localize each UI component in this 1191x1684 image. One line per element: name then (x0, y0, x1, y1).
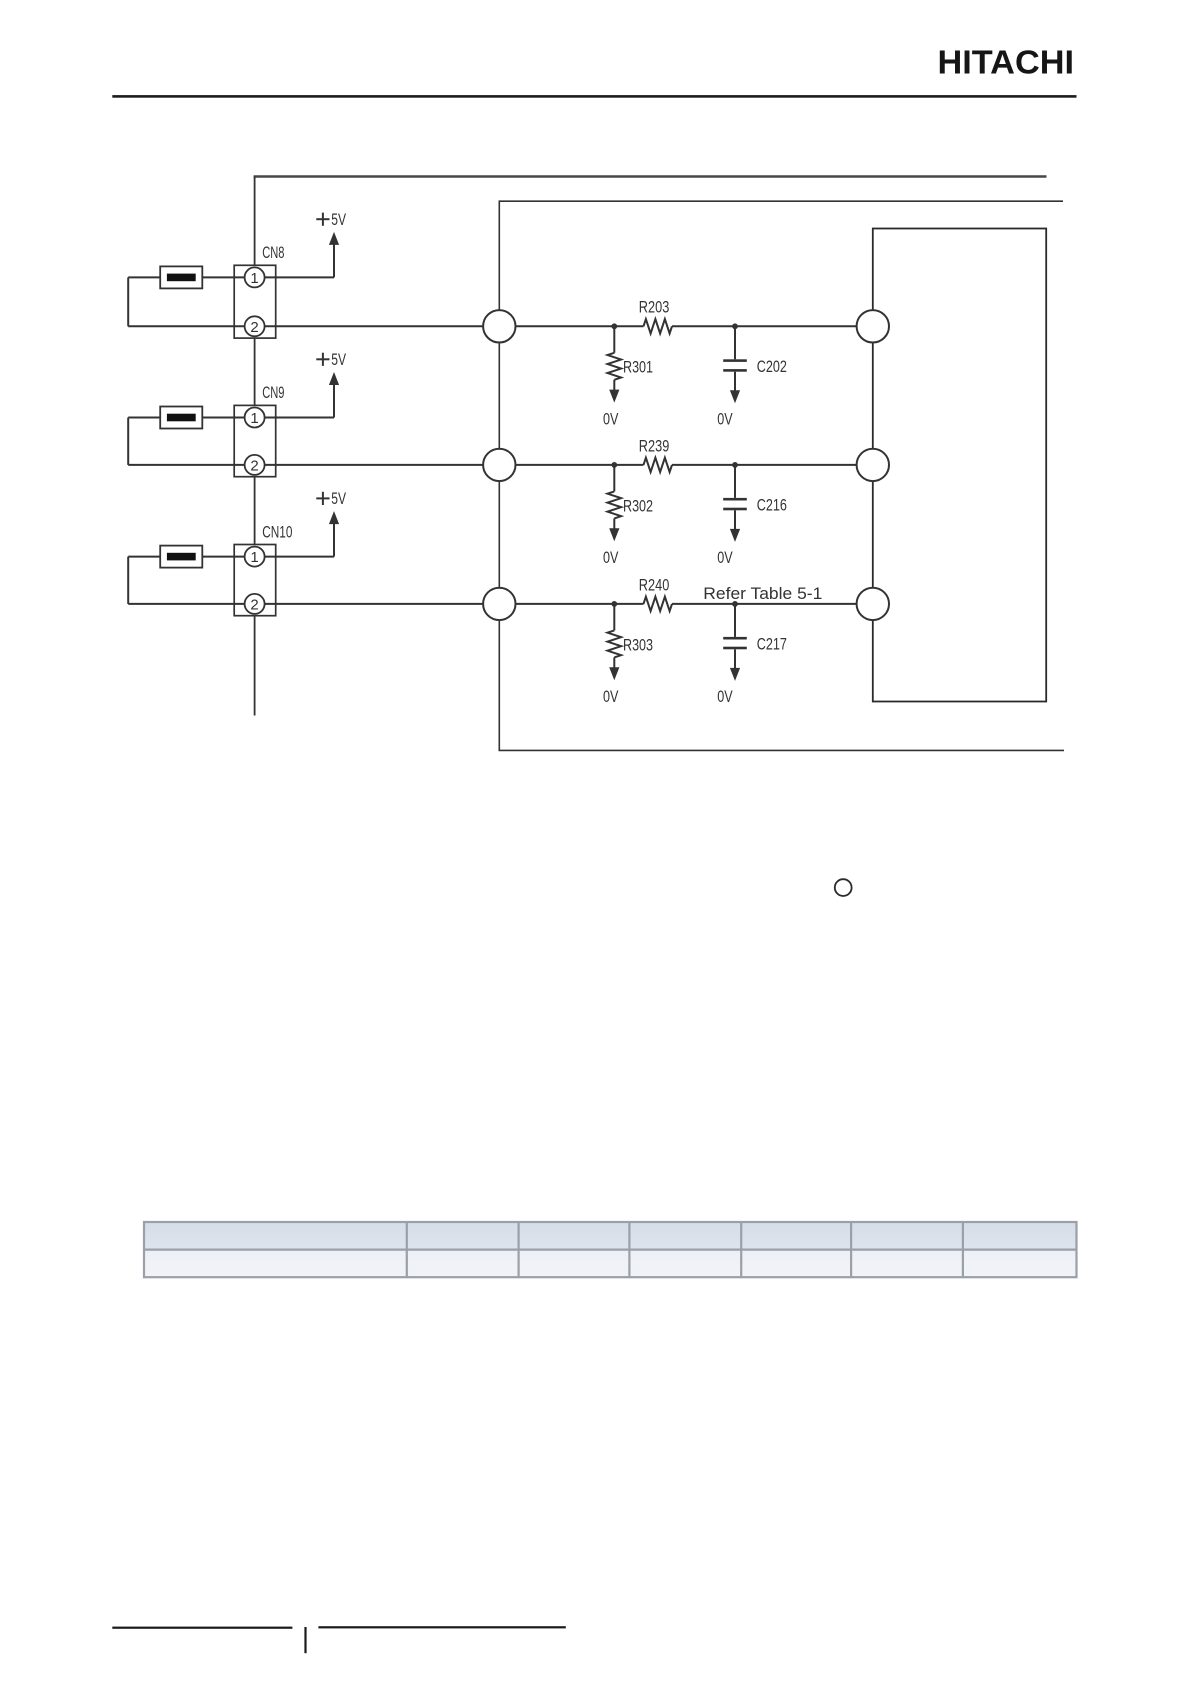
svg-text:2: 2 (250, 319, 258, 336)
svg-text:0V: 0V (717, 687, 733, 706)
svg-text:C217: C217 (757, 635, 787, 654)
svg-text:R240: R240 (639, 575, 670, 594)
svg-text:5V: 5V (331, 489, 346, 508)
svg-text:R302: R302 (623, 496, 653, 515)
svg-text:0V: 0V (717, 410, 733, 429)
svg-text:1: 1 (250, 270, 258, 287)
svg-text:1: 1 (250, 549, 258, 566)
svg-text:CN10: CN10 (262, 522, 292, 541)
svg-text:2: 2 (250, 457, 258, 474)
svg-text:C202: C202 (757, 357, 787, 376)
svg-text:R301: R301 (623, 358, 653, 377)
svg-text:5V: 5V (331, 210, 346, 229)
svg-text:HITACHI: HITACHI (938, 44, 1075, 81)
svg-text:Refer Table 5-1: Refer Table 5-1 (703, 584, 822, 603)
svg-text:0V: 0V (603, 548, 619, 567)
svg-text:0V: 0V (603, 410, 619, 429)
svg-text:CN9: CN9 (262, 383, 284, 402)
svg-text:5V: 5V (331, 350, 346, 369)
svg-text:0V: 0V (717, 548, 733, 567)
svg-text:R303: R303 (623, 635, 653, 654)
svg-text:C216: C216 (757, 496, 787, 515)
svg-text:2: 2 (250, 596, 258, 613)
svg-text:R239: R239 (639, 436, 670, 455)
svg-text:0V: 0V (603, 687, 619, 706)
svg-text:CN8: CN8 (262, 243, 284, 262)
svg-text:R203: R203 (639, 298, 670, 317)
svg-text:1: 1 (250, 410, 258, 427)
